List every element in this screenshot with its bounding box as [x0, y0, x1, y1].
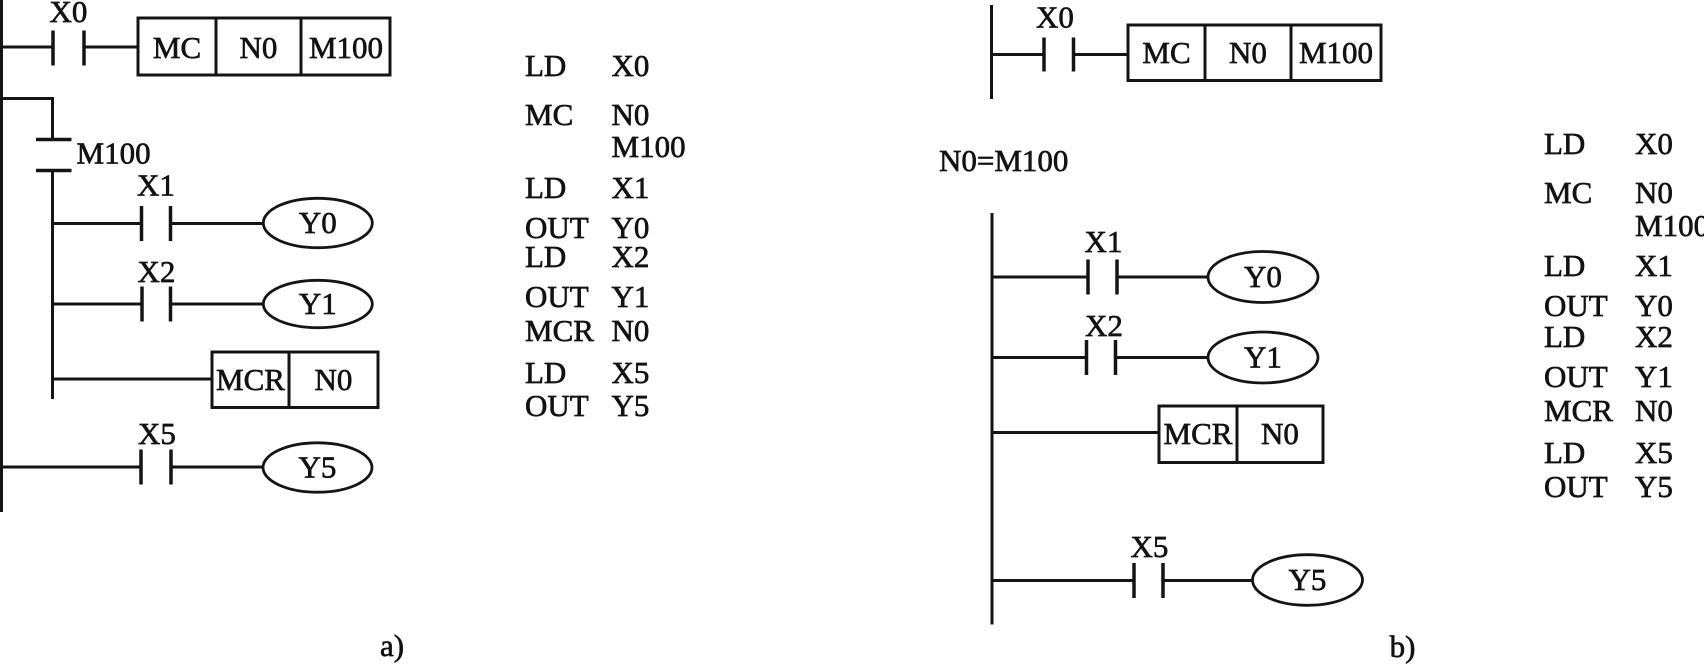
svg-text:MCR: MCR [1544, 393, 1613, 428]
svg-text:Y0: Y0 [1244, 259, 1282, 294]
MCR box divider (a) [288, 352, 291, 408]
wire X2 rung right (a) [172, 303, 264, 306]
part b: top power rail [990, 5, 993, 99]
svg-text:OUT: OUT [1544, 288, 1608, 323]
contact X1 (b) [1088, 260, 1117, 295]
svg-text:OUT: OUT [1544, 469, 1608, 504]
svg-text:N0: N0 [1261, 416, 1299, 451]
svg-text:N0: N0 [1635, 175, 1673, 210]
svg-text:LD: LD [1544, 248, 1585, 283]
contact X2 (a) [142, 287, 171, 322]
coil Y0 (b) [1208, 252, 1318, 303]
svg-text:X2: X2 [612, 239, 650, 274]
wire rung1 left of contact X0 (a) [0, 46, 52, 49]
svg-text:MCR: MCR [216, 362, 285, 397]
wire X5 rung right (b) [1165, 579, 1253, 582]
branch wire to nested rail (a) [0, 97, 54, 100]
svg-text:N0: N0 [240, 30, 278, 65]
svg-text:b): b) [1390, 629, 1416, 664]
MCR N0 instruction box (b) [1159, 406, 1323, 463]
MC N0 M100 instruction box (a) [138, 18, 390, 75]
wire X5 rung left (b) [992, 579, 1133, 582]
svg-text:X1: X1 [1085, 224, 1123, 259]
coil Y5 (b) [1253, 555, 1363, 606]
contact X5 (b) [1134, 563, 1163, 598]
svg-text:LD: LD [1544, 126, 1585, 161]
wire MCR rung (b) [992, 431, 1159, 434]
svg-text:MC: MC [1142, 35, 1190, 70]
svg-text:OUT: OUT [525, 388, 589, 423]
part a: left power rail [0, 0, 3, 512]
svg-text:N0: N0 [315, 362, 353, 397]
svg-text:N0: N0 [612, 313, 650, 348]
svg-text:X2: X2 [1635, 319, 1673, 354]
contact X0 (a) [53, 31, 84, 66]
MC box divider 1 (a) [215, 18, 218, 75]
wire X5 rung right (a) [173, 466, 264, 469]
svg-text:X1: X1 [612, 170, 650, 205]
MC box divider 2 (b) [1290, 25, 1293, 81]
part b: lower power rail [991, 213, 994, 625]
svg-text:M100: M100 [77, 136, 151, 171]
svg-text:MCR: MCR [1164, 416, 1233, 451]
svg-text:N0=M100: N0=M100 [939, 143, 1068, 178]
svg-text:LD: LD [525, 355, 566, 390]
svg-text:N0: N0 [1229, 35, 1267, 70]
svg-text:X0: X0 [612, 48, 650, 83]
svg-text:X5: X5 [1635, 435, 1673, 470]
svg-text:X5: X5 [138, 416, 176, 451]
contact X1 (a) [142, 206, 171, 241]
svg-text:X1: X1 [1635, 248, 1673, 283]
MCR N0 instruction box (a) [212, 352, 378, 408]
svg-text:X5: X5 [1131, 529, 1169, 564]
nested rail lower segment (a) [51, 171, 54, 400]
wire X2 rung left (b) [992, 356, 1085, 359]
svg-text:Y0: Y0 [1635, 288, 1673, 323]
svg-text:MC: MC [1544, 175, 1592, 210]
svg-text:LD: LD [525, 170, 566, 205]
wire X2 rung right (b) [1117, 356, 1209, 359]
wire X1 rung left (b) [992, 276, 1087, 279]
svg-text:M100: M100 [612, 129, 686, 164]
wire X5 rung left (a) [0, 466, 140, 469]
contact X0 (b) [1044, 38, 1074, 72]
svg-text:LD: LD [525, 239, 566, 274]
svg-text:Y0: Y0 [299, 205, 337, 240]
MC box divider 1 (b) [1204, 25, 1207, 81]
svg-text:X2: X2 [138, 254, 176, 289]
contact M100 bar lower (a) [36, 169, 72, 173]
svg-text:M100: M100 [309, 30, 383, 65]
svg-text:LD: LD [525, 48, 566, 83]
contact X2 (b) [1087, 340, 1116, 375]
wire X1 rung right (b) [1119, 276, 1209, 279]
svg-text:LD: LD [1544, 435, 1585, 470]
svg-text:Y5: Y5 [1635, 469, 1673, 504]
wire X2 rung left (a) [53, 303, 141, 306]
svg-text:X2: X2 [1085, 308, 1123, 343]
wire X1 rung right (a) [172, 222, 264, 225]
wire rung1 right of contact X0 (a) [86, 46, 139, 49]
svg-text:M100: M100 [1299, 35, 1373, 70]
svg-text:OUT: OUT [525, 279, 589, 314]
MC box divider 2 (a) [300, 18, 303, 75]
svg-text:MC: MC [153, 30, 201, 65]
nested rail upper segment (a) [51, 97, 54, 139]
coil Y1 (b) [1208, 332, 1318, 383]
wire MCR rung (a) [53, 378, 213, 381]
svg-text:Y1: Y1 [1635, 359, 1673, 394]
coil Y5 (a) [263, 443, 372, 492]
coil Y0 (a) [263, 198, 372, 247]
svg-text:X5: X5 [612, 355, 650, 390]
svg-text:LD: LD [1544, 319, 1585, 354]
wire rung1 left of contact X0 (b) [992, 53, 1043, 56]
svg-text:Y1: Y1 [1244, 340, 1282, 375]
svg-text:Y5: Y5 [1289, 562, 1327, 597]
svg-text:N0: N0 [612, 97, 650, 132]
svg-text:X0: X0 [1036, 0, 1074, 35]
svg-text:X1: X1 [137, 168, 175, 203]
svg-text:M100: M100 [1635, 208, 1704, 243]
wire X1 rung left (a) [53, 222, 141, 225]
wire rung1 right of contact X0 (b) [1075, 53, 1128, 56]
svg-text:Y5: Y5 [299, 450, 337, 485]
contact M100 bar upper (a) [36, 138, 72, 142]
svg-text:Y5: Y5 [612, 388, 650, 423]
svg-text:MCR: MCR [525, 313, 594, 348]
svg-text:Y1: Y1 [612, 279, 650, 314]
svg-text:a): a) [380, 628, 404, 663]
svg-text:X0: X0 [50, 0, 88, 29]
coil Y1 (a) [263, 280, 372, 327]
svg-text:OUT: OUT [1544, 359, 1608, 394]
svg-text:N0: N0 [1635, 393, 1673, 428]
svg-text:X0: X0 [1635, 126, 1673, 161]
svg-text:MC: MC [525, 97, 573, 132]
svg-text:Y1: Y1 [299, 286, 337, 321]
MC N0 M100 instruction box (b) [1128, 25, 1381, 81]
MCR box divider (b) [1236, 406, 1239, 463]
contact X5 (a) [141, 450, 171, 485]
